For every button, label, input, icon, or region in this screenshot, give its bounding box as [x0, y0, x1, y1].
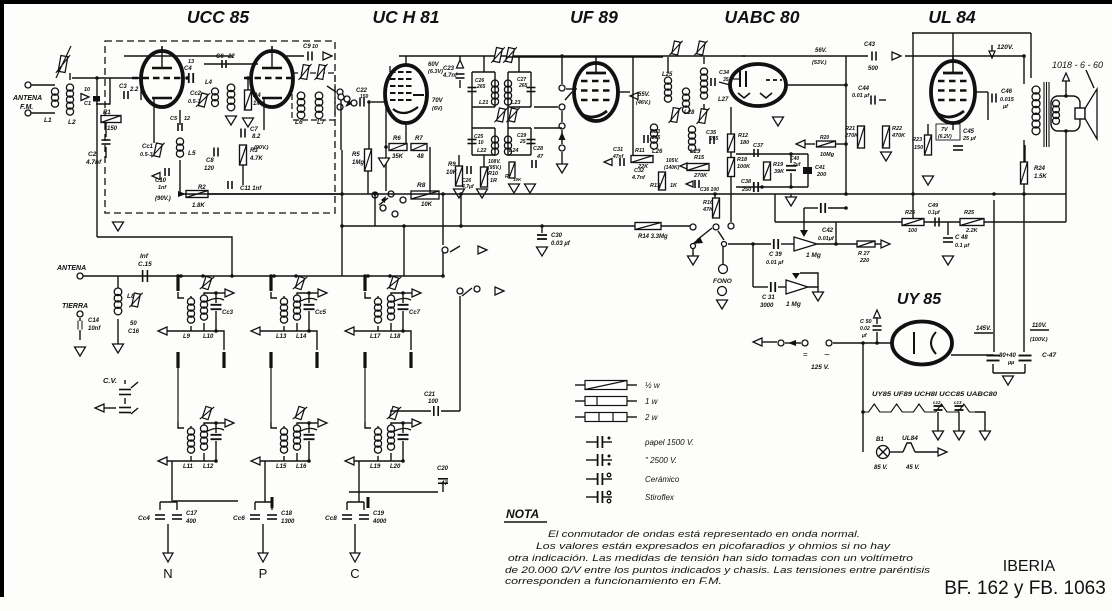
svg-text:47K: 47K	[702, 207, 714, 213]
svg-text:otra indicación. Las medidas d: otra indicación. Las medidas de tensión …	[508, 553, 913, 563]
svg-text:45 V.: 45 V.	[905, 465, 920, 471]
svg-text:C3: C3	[119, 84, 127, 90]
svg-text:L27: L27	[718, 97, 729, 103]
svg-text:Los valores están expresados e: Los valores están expresados en picofara…	[536, 541, 891, 551]
svg-text:265: 265	[709, 136, 719, 142]
svg-text:25 µf: 25 µf	[962, 136, 977, 142]
svg-text:B1: B1	[876, 437, 884, 443]
svg-text:TIERRA: TIERRA	[62, 303, 88, 310]
svg-text:C23: C23	[443, 66, 455, 72]
svg-text:R8: R8	[417, 182, 426, 189]
svg-text:UC H 81: UC H 81	[372, 7, 439, 27]
svg-text:L18: L18	[390, 334, 401, 340]
svg-text:R11: R11	[635, 148, 645, 154]
svg-text:10: 10	[312, 44, 318, 50]
svg-text:4.7K: 4.7K	[249, 156, 263, 162]
svg-text:48: 48	[416, 154, 424, 160]
svg-text:10: 10	[478, 140, 484, 146]
svg-text:12: 12	[184, 116, 190, 122]
svg-text:(53V.): (53V.)	[812, 60, 827, 66]
svg-text:0.01µf: 0.01µf	[818, 236, 835, 242]
svg-text:Stiroflex: Stiroflex	[645, 493, 675, 502]
svg-text:(6V): (6V)	[432, 106, 443, 112]
svg-text:145V.: 145V.	[976, 326, 991, 332]
svg-text:µµ: µµ	[1007, 360, 1015, 366]
svg-text:corresponden a funcionamiento: corresponden a funcionamiento en F.M.	[505, 576, 722, 586]
svg-text:55V.: 55V.	[638, 92, 650, 98]
svg-text:C6: C6	[216, 54, 224, 60]
svg-text:L14: L14	[296, 334, 307, 340]
svg-text:L28: L28	[684, 110, 695, 116]
svg-text:125 V.: 125 V.	[811, 364, 829, 371]
svg-text:c13: c13	[954, 400, 962, 405]
svg-text:C37: C37	[753, 143, 764, 149]
svg-text:FONO: FONO	[713, 278, 732, 285]
svg-text:1018 - 6 - 60: 1018 - 6 - 60	[1052, 60, 1103, 70]
svg-text:=: =	[803, 350, 808, 359]
svg-text:Cc8: Cc8	[325, 515, 337, 522]
svg-text:35: 35	[723, 77, 729, 83]
svg-text:50: 50	[130, 321, 137, 327]
svg-text:C.15: C.15	[138, 261, 152, 268]
svg-text:10Mg: 10Mg	[820, 152, 835, 158]
svg-text:250: 250	[741, 187, 751, 193]
svg-text:C4: C4	[184, 66, 192, 72]
svg-text:1Mg: 1Mg	[253, 101, 265, 107]
svg-text:C: C	[350, 566, 359, 581]
svg-text:C 48: C 48	[955, 235, 968, 241]
svg-text:R25: R25	[964, 210, 975, 216]
svg-text:de 20.000 Ω/V entre los puntos: de 20.000 Ω/V entre los puntos indicados…	[505, 565, 931, 575]
svg-text:Cc6: Cc6	[233, 515, 245, 522]
svg-text:L7: L7	[317, 119, 325, 126]
svg-text:1 Mg: 1 Mg	[786, 301, 801, 308]
svg-text:Cc2: Cc2	[190, 91, 202, 97]
svg-text:N: N	[163, 566, 172, 581]
svg-text:R24: R24	[1034, 166, 1046, 172]
svg-text:R16: R16	[703, 200, 714, 206]
svg-text:1 w: 1 w	[645, 397, 659, 406]
svg-text:(140K): (140K)	[664, 165, 680, 171]
svg-text:70V: 70V	[432, 98, 444, 104]
svg-text:(6.2V): (6.2V)	[938, 134, 952, 140]
svg-text:C21: C21	[424, 392, 436, 398]
svg-text:265: 265	[518, 83, 528, 89]
svg-text:R26: R26	[905, 210, 916, 216]
svg-text:papel 1500 V.: papel 1500 V.	[644, 438, 694, 447]
svg-text:400: 400	[185, 519, 197, 525]
svg-text:(95V.): (95V.)	[488, 165, 501, 171]
svg-text:c12: c12	[933, 400, 941, 405]
svg-text:200: 200	[816, 172, 826, 178]
svg-text:220: 220	[859, 258, 869, 264]
svg-text:L21: L21	[479, 100, 488, 106]
svg-text:R12: R12	[738, 133, 748, 139]
svg-text:10K: 10K	[421, 202, 433, 208]
svg-text:R10: R10	[488, 171, 498, 177]
svg-text:13: 13	[188, 59, 194, 65]
svg-text:C31: C31	[613, 147, 623, 153]
svg-text:C20: C20	[437, 466, 449, 472]
svg-text:270K: 270K	[693, 173, 708, 179]
svg-text:UF 89: UF 89	[570, 7, 618, 27]
svg-text:R7: R7	[415, 136, 423, 142]
svg-text:L23: L23	[511, 100, 520, 106]
svg-text:BF. 162 y FB. 1063: BF. 162 y FB. 1063	[944, 578, 1106, 599]
svg-text:35K: 35K	[392, 154, 404, 160]
svg-text:C1: C1	[84, 101, 91, 107]
svg-text:0.01 µf: 0.01 µf	[852, 93, 870, 99]
svg-text:C16: C16	[128, 329, 140, 335]
svg-text:R18: R18	[737, 157, 748, 163]
svg-text:47: 47	[536, 154, 544, 160]
svg-text:470K: 470K	[891, 133, 906, 139]
svg-text:80+40: 80+40	[999, 353, 1017, 359]
svg-text:180: 180	[740, 140, 749, 146]
svg-text:1 Mg: 1 Mg	[806, 252, 821, 259]
svg-text:3000: 3000	[760, 303, 774, 309]
svg-text:110V.: 110V.	[1032, 323, 1047, 329]
svg-text:R 27: R 27	[858, 251, 871, 257]
svg-text:Cc1: Cc1	[142, 144, 154, 150]
svg-text:C46: C46	[1001, 89, 1013, 95]
svg-text:L5: L5	[188, 150, 196, 157]
svg-text:1R: 1R	[490, 178, 497, 184]
svg-text:IBERIA: IBERIA	[1003, 558, 1056, 575]
svg-text:C7: C7	[250, 127, 258, 133]
svg-text:El conmutador de ondas está re: El conmutador de ondas está representado…	[548, 529, 860, 539]
svg-text:270K: 270K	[844, 133, 859, 139]
svg-text:10nf: 10nf	[88, 326, 101, 332]
svg-text:UCC 85: UCC 85	[187, 7, 250, 27]
svg-text:C5: C5	[170, 116, 178, 122]
svg-text:2µf: 2µf	[792, 162, 802, 168]
svg-text:C9: C9	[303, 44, 311, 50]
svg-text:4.7nf: 4.7nf	[631, 175, 646, 181]
svg-text:C-47: C-47	[1042, 352, 1056, 359]
svg-text:0.03 µf: 0.03 µf	[551, 241, 571, 247]
svg-text:1.8K: 1.8K	[192, 203, 205, 209]
svg-text:C38: C38	[741, 179, 752, 185]
svg-text:L15: L15	[276, 464, 287, 470]
svg-text:C36 100: C36 100	[700, 187, 719, 193]
svg-text:R19: R19	[773, 162, 784, 168]
svg-text:150: 150	[360, 94, 369, 100]
svg-text:UL 84: UL 84	[928, 7, 976, 27]
svg-text:C10: C10	[155, 178, 167, 184]
svg-text:R21: R21	[845, 126, 855, 132]
svg-text:C43: C43	[864, 42, 876, 48]
svg-text:10K: 10K	[446, 170, 458, 176]
svg-text:C28: C28	[533, 146, 544, 152]
svg-text:R5: R5	[352, 152, 360, 158]
svg-text:85 V.: 85 V.	[874, 465, 888, 471]
svg-text:150: 150	[107, 126, 118, 132]
svg-text:L24: L24	[509, 148, 518, 154]
svg-text:~: ~	[824, 350, 830, 361]
svg-text:Cc7: Cc7	[409, 310, 421, 316]
svg-text:C.V.: C.V.	[103, 376, 117, 385]
svg-text:NOTA: NOTA	[506, 507, 539, 521]
svg-text:UL84: UL84	[902, 435, 918, 442]
svg-text:C 39: C 39	[769, 252, 782, 258]
svg-text:C30: C30	[551, 233, 563, 239]
svg-text:0.5-3: 0.5-3	[140, 152, 153, 158]
svg-text:Cc4: Cc4	[138, 515, 150, 522]
svg-text:L11: L11	[183, 464, 194, 470]
svg-text:1.5K: 1.5K	[1034, 174, 1047, 180]
svg-text:39K: 39K	[774, 169, 785, 175]
svg-text:L17: L17	[370, 334, 381, 340]
svg-text:P: P	[259, 566, 268, 581]
svg-text:ANTENA: ANTENA	[12, 95, 42, 102]
svg-text:100: 100	[428, 399, 439, 405]
svg-text:C34: C34	[719, 70, 729, 76]
svg-text:265: 265	[651, 135, 661, 141]
svg-text:Cerámico: Cerámico	[645, 475, 680, 484]
svg-text:25: 25	[519, 139, 526, 145]
svg-text:L20: L20	[390, 464, 401, 470]
svg-text:100: 100	[908, 228, 917, 234]
svg-text:8.2: 8.2	[252, 134, 261, 140]
svg-text:R22: R22	[892, 126, 902, 132]
svg-text:10: 10	[84, 87, 90, 93]
svg-text:L4: L4	[205, 80, 213, 86]
svg-text:C44: C44	[858, 86, 870, 92]
svg-text:UY85 UF89 UCH8I UCC85 UABC: UY85 UF89 UCH8I UCC85 UABC80	[872, 391, 997, 398]
svg-text:Inf: Inf	[140, 253, 149, 260]
svg-text:0.02: 0.02	[860, 326, 870, 332]
svg-text:150: 150	[914, 145, 923, 151]
svg-text:0.01 µf: 0.01 µf	[766, 260, 784, 266]
svg-text:120: 120	[204, 166, 215, 172]
svg-text:R13: R13	[650, 183, 660, 189]
svg-text:1K: 1K	[670, 183, 678, 189]
svg-text:C45: C45	[963, 129, 975, 135]
svg-text:120V.: 120V.	[997, 44, 1014, 51]
svg-text:R14 3.3Mg: R14 3.3Mg	[638, 234, 668, 240]
svg-text:C2: C2	[88, 151, 97, 158]
svg-text:UY 85: UY 85	[897, 291, 942, 308]
svg-text:(6.3V): (6.3V)	[428, 69, 443, 75]
svg-text:Cc3: Cc3	[222, 310, 234, 316]
svg-text:0.015: 0.015	[1000, 97, 1015, 103]
svg-text:0.1 µf: 0.1 µf	[955, 243, 970, 249]
svg-text:L22: L22	[477, 148, 486, 154]
svg-text:L12: L12	[203, 464, 214, 470]
svg-text:C42: C42	[822, 228, 834, 234]
svg-text:C41: C41	[815, 165, 825, 171]
svg-text:C49: C49	[928, 203, 939, 209]
svg-text:L19: L19	[370, 464, 381, 470]
svg-text:" 2500 V.: " 2500 V.	[645, 456, 677, 465]
svg-text:100K: 100K	[737, 164, 751, 170]
svg-text:500: 500	[868, 66, 879, 72]
svg-text:C19: C19	[373, 511, 385, 517]
svg-text:(90V.): (90V.)	[155, 196, 171, 202]
svg-text:R3: R3	[250, 148, 258, 154]
svg-text:C32: C32	[634, 168, 644, 174]
svg-text:L10: L10	[203, 334, 214, 340]
svg-text:47nf: 47nf	[612, 154, 625, 160]
svg-text:ANTENA: ANTENA	[56, 265, 86, 272]
svg-text:(100V.): (100V.)	[1030, 337, 1048, 343]
svg-text:L26: L26	[652, 149, 663, 155]
svg-text:2.2: 2.2	[129, 87, 139, 93]
svg-text:4.7nf: 4.7nf	[85, 159, 102, 166]
svg-text:C14: C14	[88, 318, 100, 324]
svg-text:4000: 4000	[372, 519, 387, 525]
svg-text:C 50: C 50	[860, 319, 872, 325]
svg-text:½ w: ½ w	[645, 381, 661, 390]
svg-text:R15: R15	[694, 155, 705, 161]
svg-text:R4: R4	[253, 93, 261, 99]
svg-text:60V: 60V	[428, 62, 440, 68]
svg-text:2 w: 2 w	[644, 413, 659, 422]
svg-text:C8: C8	[206, 158, 214, 164]
svg-text:1nf: 1nf	[158, 185, 167, 191]
svg-text:C17: C17	[186, 511, 198, 517]
svg-text:1300: 1300	[281, 519, 295, 525]
svg-text:R1: R1	[103, 110, 111, 116]
svg-text:105V.: 105V.	[666, 158, 679, 164]
svg-text:L9: L9	[183, 334, 191, 340]
svg-text:C18: C18	[281, 511, 293, 517]
svg-text:R20: R20	[820, 135, 829, 141]
svg-text:(46V.): (46V.)	[636, 100, 651, 106]
svg-text:L1: L1	[44, 117, 52, 124]
svg-text:R2: R2	[198, 185, 206, 191]
svg-text:0.1µf: 0.1µf	[928, 210, 941, 216]
svg-text:1Mg: 1Mg	[352, 160, 364, 166]
svg-text:L2: L2	[68, 119, 76, 126]
svg-text:22: 22	[227, 54, 235, 60]
svg-text:C 31: C 31	[762, 295, 775, 301]
svg-text:L16: L16	[296, 464, 307, 470]
svg-text:56V.: 56V.	[815, 48, 827, 54]
svg-text:UABC 80: UABC 80	[725, 7, 800, 27]
svg-text:R6: R6	[393, 136, 401, 142]
svg-text:L13: L13	[276, 334, 287, 340]
svg-text:0.5-3: 0.5-3	[188, 99, 201, 105]
svg-text:C11 1nf: C11 1nf	[240, 186, 262, 192]
svg-text:R9: R9	[448, 162, 456, 168]
svg-text:L6: L6	[295, 119, 303, 126]
svg-text:265: 265	[476, 84, 486, 90]
svg-text:Cc5: Cc5	[315, 310, 327, 316]
svg-text:2.2K: 2.2K	[965, 228, 979, 234]
